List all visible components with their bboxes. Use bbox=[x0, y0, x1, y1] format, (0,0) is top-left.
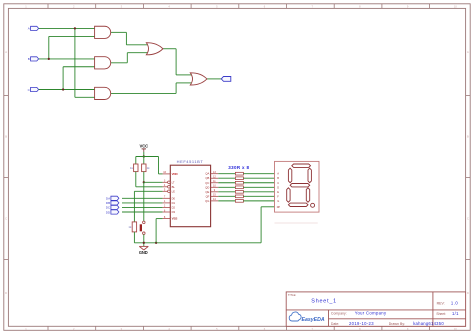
svg-text:C: C bbox=[5, 217, 7, 221]
svg-text:A: A bbox=[28, 27, 30, 31]
svg-text:B: B bbox=[467, 135, 469, 139]
svg-text:B: B bbox=[28, 57, 30, 61]
svg-text:Sheet_1: Sheet_1 bbox=[311, 298, 337, 304]
svg-text:D0: D0 bbox=[172, 196, 176, 200]
svg-text:QD: QD bbox=[205, 185, 209, 189]
svg-text:EasyEDA: EasyEDA bbox=[302, 317, 325, 323]
svg-text:TITLE:: TITLE: bbox=[288, 293, 297, 297]
svg-text:D: D bbox=[5, 291, 7, 295]
svg-text:DA: DA bbox=[106, 197, 110, 201]
svg-text:kahang614350: kahang614350 bbox=[413, 321, 444, 326]
svg-text:C: C bbox=[467, 217, 469, 221]
svg-text:D1: D1 bbox=[172, 201, 176, 205]
svg-text:2019-10-23: 2019-10-23 bbox=[349, 321, 374, 326]
svg-text:LE: LE bbox=[172, 189, 175, 193]
svg-text:LT: LT bbox=[172, 180, 175, 184]
svg-text:B: B bbox=[5, 135, 7, 139]
svg-text:G: G bbox=[277, 199, 279, 203]
svg-text:1/1: 1/1 bbox=[452, 311, 459, 316]
svg-text:Drawn By:: Drawn By: bbox=[389, 322, 406, 326]
svg-text:GND: GND bbox=[139, 250, 148, 255]
svg-text:A: A bbox=[277, 172, 279, 176]
svg-text:BL: BL bbox=[172, 185, 176, 189]
svg-text:D3: D3 bbox=[172, 210, 176, 214]
svg-text:A: A bbox=[467, 50, 469, 54]
svg-text:D: D bbox=[467, 291, 469, 295]
svg-text:1.0: 1.0 bbox=[451, 301, 458, 306]
svg-text:DP: DP bbox=[277, 206, 281, 209]
svg-text:QC: QC bbox=[205, 181, 209, 185]
svg-text:330R x 8: 330R x 8 bbox=[228, 165, 249, 170]
svg-text:D: D bbox=[277, 185, 279, 189]
svg-text:QG: QG bbox=[205, 199, 209, 203]
svg-text:QB: QB bbox=[205, 176, 209, 180]
svg-text:Your Company: Your Company bbox=[355, 310, 387, 315]
svg-text:VCC: VCC bbox=[139, 144, 148, 149]
svg-text:Company:: Company: bbox=[331, 311, 347, 315]
svg-text:Sheet:: Sheet: bbox=[436, 312, 446, 316]
svg-text:QE: QE bbox=[205, 190, 209, 194]
svg-text:VSS: VSS bbox=[172, 217, 178, 221]
svg-text:B: B bbox=[277, 176, 279, 180]
svg-text:HEF4511BT: HEF4511BT bbox=[177, 159, 204, 164]
svg-text:DB: DB bbox=[106, 201, 110, 205]
svg-text:C: C bbox=[277, 181, 279, 185]
svg-text:REV:: REV: bbox=[437, 302, 445, 306]
svg-text:A: A bbox=[5, 50, 7, 54]
svg-text:VDD: VDD bbox=[172, 172, 179, 176]
svg-text:D2: D2 bbox=[172, 205, 176, 209]
svg-text:Date:: Date: bbox=[331, 322, 339, 326]
svg-text:QF: QF bbox=[206, 194, 210, 198]
svg-text:QA: QA bbox=[205, 172, 209, 176]
svg-text:E: E bbox=[277, 190, 279, 194]
